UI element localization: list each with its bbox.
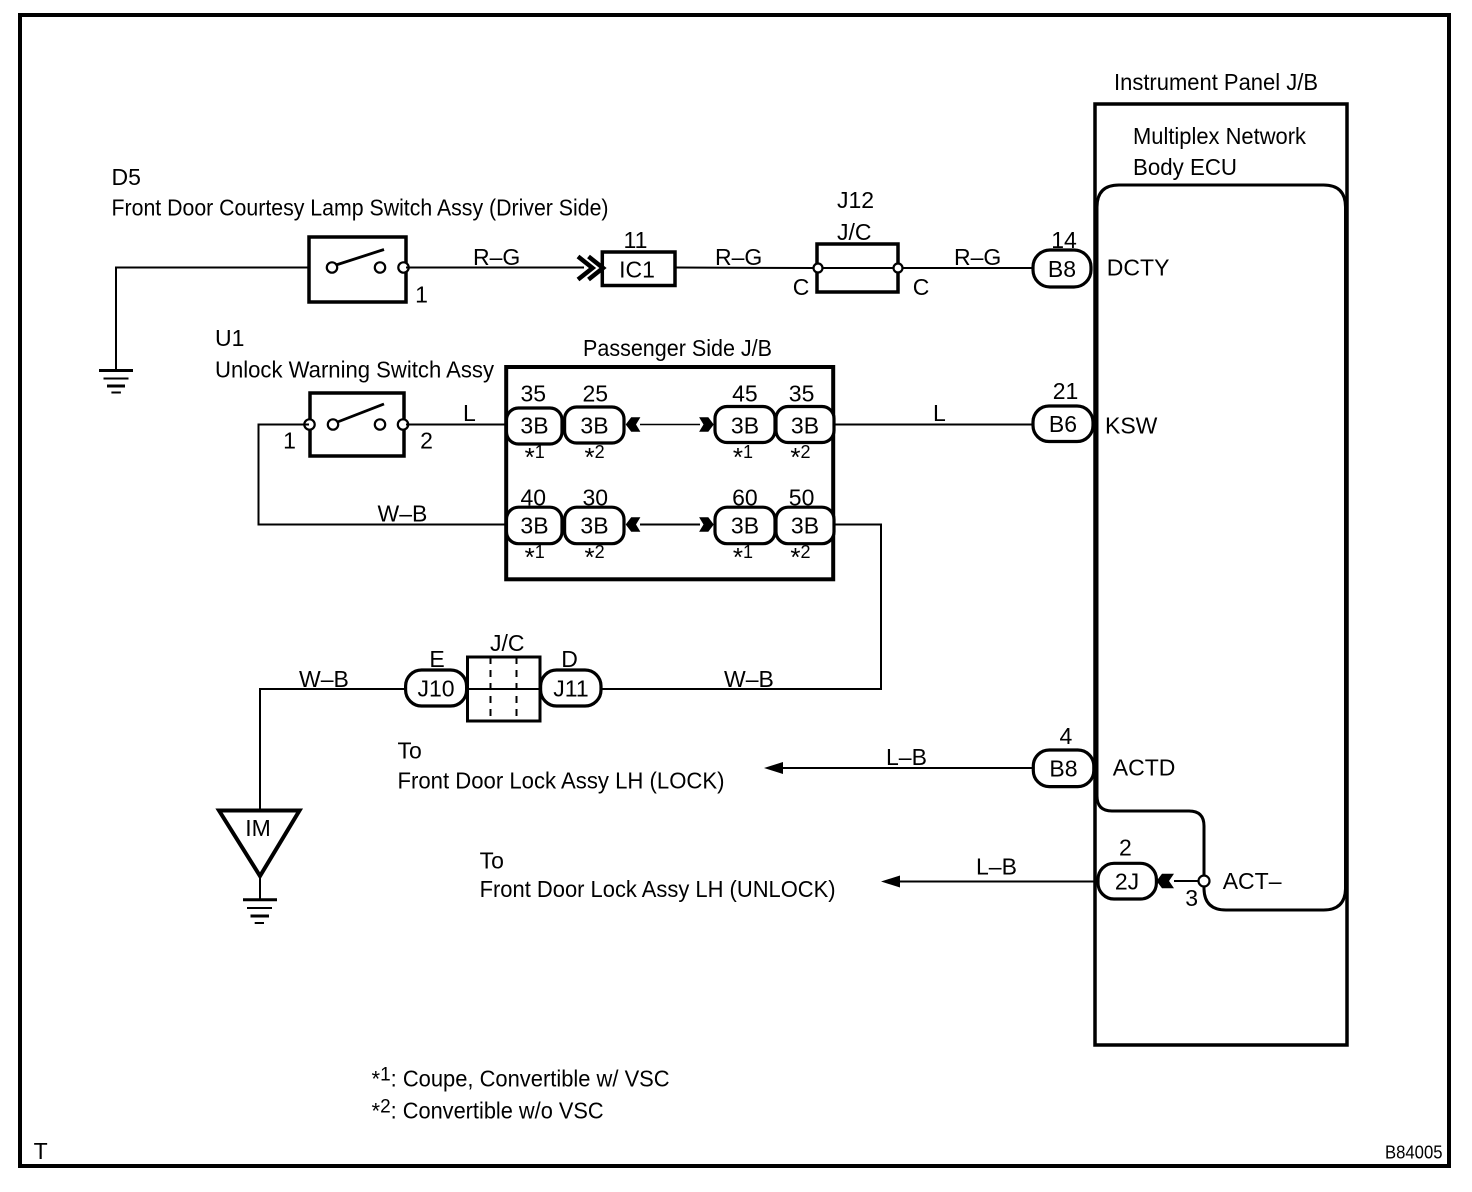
svg-text:J/C: J/C bbox=[837, 219, 872, 245]
Passenger Side J/B box bbox=[506, 367, 833, 579]
svg-text:35: 35 bbox=[521, 381, 547, 407]
svg-text:B8: B8 bbox=[1049, 756, 1077, 782]
svg-text:DCTY: DCTY bbox=[1107, 254, 1170, 280]
wire: row2 out right, down, left to J11 bbox=[601, 525, 881, 690]
wire: 2J to arrow bbox=[900, 881, 1098, 883]
svg-text:R–G: R–G bbox=[715, 244, 762, 270]
arrowhead into 2J bbox=[1157, 874, 1175, 888]
wire: B8 ACTD to arrow bbox=[783, 767, 1033, 769]
node circle pin 3 bbox=[1199, 876, 1210, 887]
svg-text:ACTD: ACTD bbox=[1113, 755, 1176, 781]
wire: IM to ground bbox=[259, 876, 261, 899]
svg-text:C: C bbox=[793, 274, 810, 300]
svg-text:25: 25 bbox=[583, 381, 609, 407]
svg-text:To: To bbox=[398, 738, 422, 764]
junction connector box with dashed splices bbox=[468, 657, 541, 721]
svg-text:1: 1 bbox=[415, 281, 428, 307]
wire: J12 to B8 bbox=[902, 267, 1033, 269]
svg-text:3B: 3B bbox=[520, 513, 548, 539]
svg-text:L: L bbox=[463, 400, 476, 426]
svg-text:Unlock Warning Switch Assy: Unlock Warning Switch Assy bbox=[215, 357, 494, 383]
svg-text:W–B: W–B bbox=[299, 666, 349, 692]
svg-text:J12: J12 bbox=[837, 187, 874, 213]
svg-text:3B: 3B bbox=[580, 413, 608, 439]
svg-text:IC1: IC1 bbox=[619, 257, 655, 283]
svg-text:4: 4 bbox=[1060, 723, 1073, 749]
ECU U2: Multiplex Network Body ECU rounded body bbox=[1097, 185, 1346, 910]
svg-text:11: 11 bbox=[624, 227, 648, 253]
svg-text:2: 2 bbox=[420, 428, 433, 454]
svg-text:Front Door Lock Assy LH (LOCK): Front Door Lock Assy LH (LOCK) bbox=[398, 768, 725, 794]
svg-text:J11: J11 bbox=[553, 675, 588, 701]
connector IC1 bbox=[602, 252, 675, 286]
svg-text:3B: 3B bbox=[791, 513, 819, 539]
svg-text:3: 3 bbox=[1185, 885, 1198, 911]
wire: D5 to IC1 bbox=[406, 267, 584, 269]
shielded-wire chevrons into IC1 bbox=[578, 257, 593, 280]
svg-text:U1: U1 bbox=[215, 325, 244, 351]
svg-text:3B: 3B bbox=[731, 513, 759, 539]
wire: U1 pin1 down and to J/B row2 bbox=[259, 425, 507, 525]
arrow to LOCK bbox=[764, 762, 783, 774]
connector J11 bbox=[541, 670, 601, 706]
connector B8 pin 4 bbox=[1033, 750, 1094, 787]
svg-text:45: 45 bbox=[732, 381, 758, 407]
svg-text:2: 2 bbox=[1119, 834, 1132, 860]
wire: ACT- node to 2J arrow bbox=[1174, 880, 1199, 882]
svg-text:E: E bbox=[429, 646, 444, 672]
svg-text:3B: 3B bbox=[580, 513, 608, 539]
switch U1 bbox=[310, 393, 404, 456]
junction connector J12 bbox=[817, 244, 898, 292]
svg-text:Instrument Panel J/B: Instrument Panel J/B bbox=[1114, 69, 1318, 95]
svg-text:35: 35 bbox=[789, 381, 815, 407]
svg-text:J/C: J/C bbox=[490, 630, 525, 656]
wire: IC1 to J12 bbox=[675, 267, 814, 270]
svg-text:Front Door Courtesy Lamp Switc: Front Door Courtesy Lamp Switch Assy (Dr… bbox=[112, 195, 609, 221]
svg-text:R–G: R–G bbox=[954, 244, 1001, 270]
svg-text:W–B: W–B bbox=[378, 501, 428, 527]
svg-text:B6: B6 bbox=[1049, 411, 1077, 437]
connector B8 pin 14 bbox=[1033, 250, 1091, 287]
row1 arrows and wire bbox=[626, 417, 641, 431]
svg-text:To: To bbox=[480, 848, 504, 874]
svg-text:KSW: KSW bbox=[1105, 413, 1158, 439]
row2 connector ovals 3B bbox=[507, 507, 563, 544]
svg-text:IM: IM bbox=[245, 815, 271, 841]
svg-text:3B: 3B bbox=[791, 413, 819, 439]
svg-text:D: D bbox=[561, 646, 578, 672]
row1 connector ovals 3B bbox=[507, 408, 563, 444]
svg-text:Front Door Lock Assy LH (UNLOC: Front Door Lock Assy LH (UNLOCK) bbox=[480, 876, 836, 902]
svg-text:R–G: R–G bbox=[473, 244, 520, 270]
svg-text:C: C bbox=[913, 274, 930, 300]
svg-text:B8: B8 bbox=[1048, 256, 1076, 282]
svg-text:21: 21 bbox=[1053, 378, 1079, 404]
svg-text:3B: 3B bbox=[520, 413, 548, 439]
svg-text:ACT–: ACT– bbox=[1223, 868, 1282, 894]
svg-text:T: T bbox=[34, 1138, 48, 1164]
switch D5 bbox=[309, 237, 406, 302]
connector 2J pin 2 bbox=[1098, 863, 1156, 899]
svg-text:L–B: L–B bbox=[886, 744, 927, 770]
wire: J10 left to corner and down bbox=[260, 689, 406, 810]
svg-text:*2: Convertible w/o VSC: *2: Convertible w/o VSC bbox=[372, 1097, 604, 1124]
connector J10 bbox=[406, 670, 467, 706]
connector block: Instrument Panel J/B outer box bbox=[1095, 104, 1347, 1045]
svg-text:1: 1 bbox=[283, 428, 296, 454]
svg-text:D5: D5 bbox=[112, 164, 141, 190]
ground triangle IM bbox=[219, 811, 300, 877]
svg-text:Passenger Side J/B: Passenger Side J/B bbox=[583, 335, 772, 361]
connector B6 pin 21 bbox=[1033, 406, 1093, 442]
svg-text:*1: Coupe, Convertible w/ VSC: *1: Coupe, Convertible w/ VSC bbox=[372, 1065, 670, 1092]
wire: U1 pin2 to Passenger J/B bbox=[406, 424, 506, 426]
wire: row1 to B6 KSW bbox=[835, 424, 1033, 426]
arrow to UNLOCK bbox=[881, 876, 900, 888]
wire: ground to D5 switch bbox=[116, 268, 309, 371]
svg-text:J10: J10 bbox=[417, 675, 454, 701]
svg-text:L–B: L–B bbox=[976, 854, 1017, 880]
svg-text:L: L bbox=[933, 400, 946, 426]
row2 arrows and wire bbox=[626, 517, 641, 531]
svg-text:3B: 3B bbox=[731, 413, 759, 439]
svg-text:B84005: B84005 bbox=[1385, 1143, 1443, 1163]
svg-text:Multiplex Network: Multiplex Network bbox=[1133, 123, 1306, 149]
ground G2 bbox=[243, 900, 277, 923]
svg-text:2J: 2J bbox=[1115, 868, 1139, 894]
svg-text:W–B: W–B bbox=[724, 666, 774, 692]
svg-text:Body ECU: Body ECU bbox=[1133, 154, 1237, 180]
ground G1 bbox=[99, 371, 133, 393]
